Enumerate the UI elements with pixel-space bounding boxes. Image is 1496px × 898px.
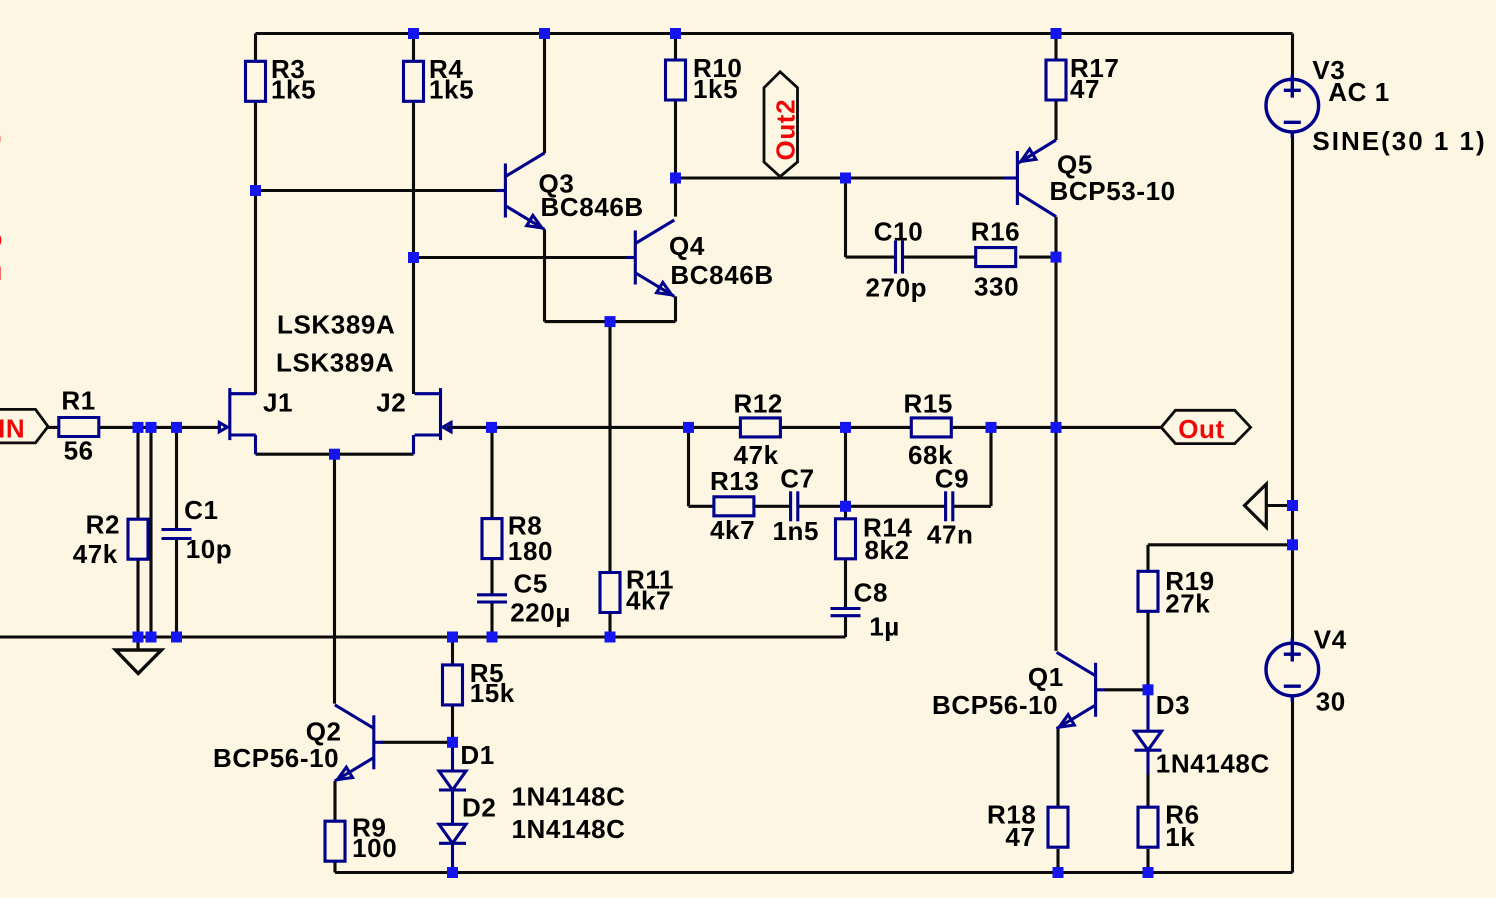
svg-text:BCP56-10: BCP56-10	[213, 743, 339, 773]
svg-text:C5: C5	[514, 569, 548, 599]
svg-text:BC846B: BC846B	[670, 260, 773, 290]
svg-text:C8: C8	[854, 578, 888, 608]
svg-text:47: 47	[1070, 74, 1100, 104]
svg-text:Out2: Out2	[771, 99, 801, 161]
svg-text:56: 56	[64, 435, 94, 465]
svg-text:C10: C10	[874, 216, 924, 246]
svg-text:Q4: Q4	[669, 231, 705, 261]
svg-text:BCP53-10: BCP53-10	[1050, 176, 1176, 206]
svg-text:o: o	[0, 223, 3, 253]
svg-text:4k7: 4k7	[626, 586, 671, 616]
svg-text:R2: R2	[86, 510, 120, 540]
svg-text:BC846B: BC846B	[541, 192, 644, 222]
svg-text:1N4148C: 1N4148C	[512, 782, 626, 812]
svg-text:4k7: 4k7	[710, 515, 755, 545]
svg-text:Q1: Q1	[1028, 662, 1064, 692]
svg-text:J1: J1	[263, 388, 293, 418]
svg-text:1k: 1k	[1165, 822, 1195, 852]
svg-text:270p: 270p	[866, 273, 928, 303]
svg-text:R13: R13	[710, 466, 760, 496]
svg-text:10p: 10p	[186, 534, 233, 564]
svg-text:47: 47	[1005, 822, 1035, 852]
svg-text:1N4148C: 1N4148C	[512, 814, 626, 844]
svg-text:R16: R16	[971, 216, 1021, 246]
svg-text:u: u	[0, 256, 3, 286]
svg-text:D1: D1	[460, 740, 494, 770]
svg-text:R15: R15	[904, 389, 954, 419]
svg-text:27k: 27k	[1165, 589, 1210, 619]
svg-text:AC 1: AC 1	[1328, 77, 1390, 107]
svg-text:1N4148C: 1N4148C	[1156, 749, 1270, 779]
svg-text:LSK389A: LSK389A	[276, 348, 394, 378]
svg-text:1µ: 1µ	[869, 612, 900, 642]
svg-text:C9: C9	[935, 464, 969, 494]
svg-text:C1: C1	[184, 495, 218, 525]
svg-text:J2: J2	[376, 388, 406, 418]
svg-text:C7: C7	[780, 464, 814, 494]
svg-text:1k5: 1k5	[693, 74, 738, 104]
svg-text:1k5: 1k5	[429, 75, 474, 105]
svg-text:220µ: 220µ	[510, 598, 571, 628]
svg-text:LSK389A: LSK389A	[277, 309, 395, 339]
svg-text:D2: D2	[462, 793, 496, 823]
svg-text:180: 180	[508, 536, 553, 566]
svg-text:100: 100	[352, 833, 397, 863]
svg-text:0: 0	[0, 124, 2, 154]
svg-text:R1: R1	[61, 385, 95, 415]
svg-text:Q5: Q5	[1057, 150, 1093, 180]
svg-text:330: 330	[974, 272, 1019, 302]
svg-text:1n5: 1n5	[773, 516, 820, 546]
svg-text:R12: R12	[734, 389, 784, 419]
svg-text:IN: IN	[0, 414, 25, 444]
svg-text:SINE(30 1 1): SINE(30 1 1)	[1312, 126, 1486, 156]
svg-text:V4: V4	[1314, 625, 1347, 655]
svg-text:1k5: 1k5	[271, 75, 316, 105]
svg-text:BCP56-10: BCP56-10	[932, 690, 1058, 720]
svg-text:47k: 47k	[73, 539, 118, 569]
svg-text:8k2: 8k2	[865, 535, 910, 565]
svg-text:15k: 15k	[470, 678, 515, 708]
svg-text:Out: Out	[1178, 414, 1225, 444]
svg-text:30: 30	[1316, 687, 1346, 717]
svg-text:47n: 47n	[927, 520, 974, 550]
svg-text:D3: D3	[1156, 690, 1190, 720]
